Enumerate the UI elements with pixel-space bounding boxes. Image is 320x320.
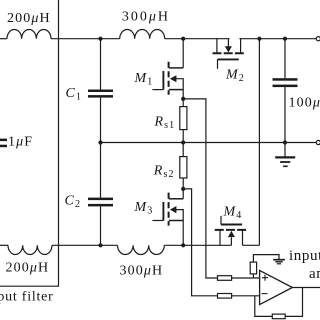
svg-text:1μF: 1μF xyxy=(8,135,33,150)
svg-text:M1: M1 xyxy=(134,71,154,88)
svg-text:M2: M2 xyxy=(225,67,245,84)
svg-text:ampl: ampl xyxy=(309,266,320,282)
svg-text:C2: C2 xyxy=(65,194,82,211)
svg-text:300μH: 300μH xyxy=(120,264,164,279)
svg-text:input filter: input filter xyxy=(0,290,54,305)
svg-text:C1: C1 xyxy=(66,86,83,103)
svg-text:300μH: 300μH xyxy=(122,10,170,25)
svg-text:200μH: 200μH xyxy=(6,261,50,276)
svg-text:M4: M4 xyxy=(223,205,243,222)
svg-text:Rs2: Rs2 xyxy=(153,164,175,181)
svg-text:M3: M3 xyxy=(134,200,154,217)
svg-text:Rs1: Rs1 xyxy=(154,114,176,131)
svg-text:100μF: 100μF xyxy=(289,96,320,111)
svg-text:input: input xyxy=(289,248,320,264)
svg-text:200μH: 200μH xyxy=(7,11,51,26)
